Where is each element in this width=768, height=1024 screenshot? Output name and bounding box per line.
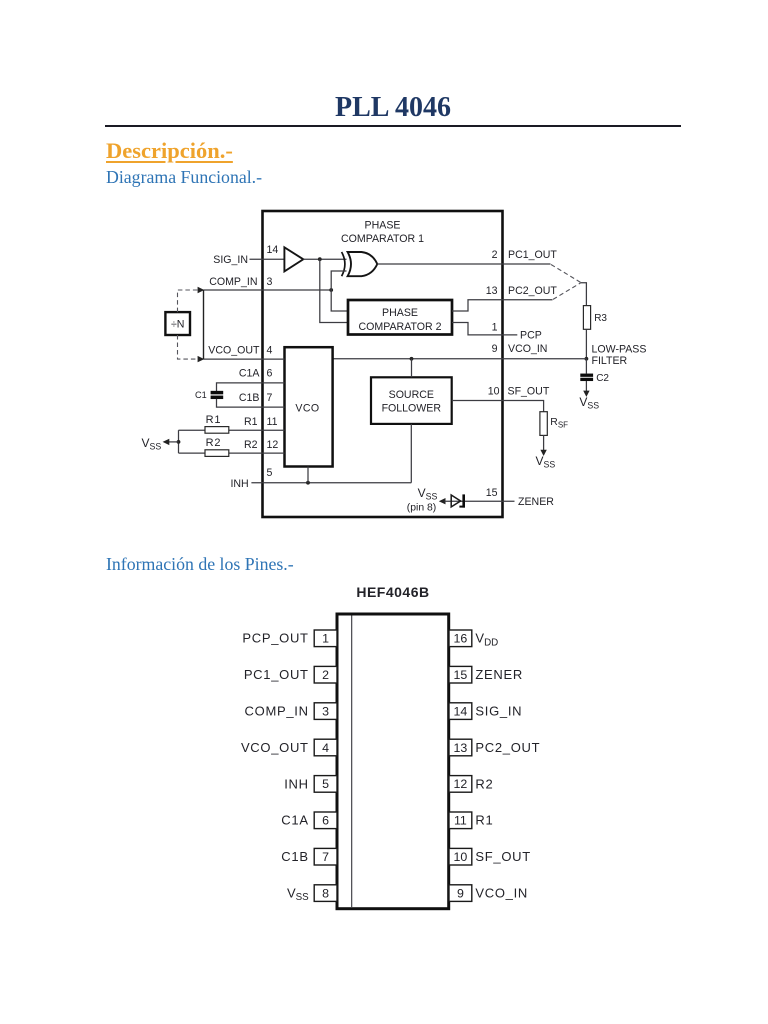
pin 15 box	[449, 666, 472, 683]
wire SIG_IN	[250, 258, 285, 260]
svg-text:VSS: VSS	[142, 436, 162, 452]
resistor R3	[583, 306, 590, 330]
svg-text:2: 2	[492, 249, 498, 261]
svg-text:1: 1	[322, 632, 329, 646]
svg-text:VCO_OUT: VCO_OUT	[241, 740, 309, 755]
svg-text:11: 11	[454, 814, 467, 828]
svg-text:SF_OUT: SF_OUT	[475, 849, 530, 864]
svg-text:14: 14	[267, 244, 279, 256]
svg-text:R2: R2	[244, 439, 258, 451]
wire buffer to XOR	[303, 257, 346, 261]
svg-text:C1A: C1A	[281, 813, 308, 828]
svg-text:HEF4046B: HEF4046B	[356, 584, 429, 600]
wire VCO_OUT	[204, 358, 285, 360]
pin 6 box	[314, 812, 337, 829]
horizontal rule	[105, 125, 681, 127]
svg-text:COMPARATOR 2: COMPARATOR 2	[359, 321, 442, 333]
wire filter node to R3	[581, 283, 587, 306]
svg-text:VCO_IN: VCO_IN	[475, 886, 528, 901]
svg-text:3: 3	[322, 704, 329, 718]
svg-text:SIG_IN: SIG_IN	[475, 704, 522, 719]
wire COMP_IN to PC2 upper input	[331, 290, 348, 311]
wire INH to VCO	[307, 467, 309, 483]
svg-text:(pin 8): (pin 8)	[407, 503, 436, 514]
zener diode arrow	[439, 498, 515, 504]
pin 2 box	[314, 666, 337, 683]
VCO box	[285, 347, 333, 466]
svg-text:VSS: VSS	[287, 886, 309, 904]
wire C1A	[217, 383, 285, 391]
pin diagram body	[337, 614, 449, 909]
svg-text:PC2_OUT: PC2_OUT	[508, 285, 557, 297]
capacitor C1	[211, 393, 224, 398]
svg-text:1: 1	[492, 321, 498, 333]
heading Descripcion	[106, 138, 233, 164]
wire PC2 to pin 13	[452, 300, 553, 311]
pin 4 box	[314, 739, 337, 756]
label PHASE COMPARATOR 1	[341, 220, 424, 246]
svg-text:ZENER: ZENER	[518, 496, 554, 508]
wire junction to C2	[585, 359, 587, 374]
svg-text:PCP: PCP	[520, 330, 542, 342]
svg-text:VCO: VCO	[295, 402, 319, 414]
svg-text:PHASE: PHASE	[365, 220, 401, 232]
svg-text:13: 13	[486, 285, 498, 297]
svg-text:7: 7	[267, 392, 273, 404]
svg-text:10: 10	[454, 850, 468, 864]
title PLL 4046	[18, 92, 768, 124]
pin 16 box	[449, 630, 472, 647]
svg-text:PCP_OUT: PCP_OUT	[242, 631, 308, 646]
divider N box	[165, 312, 190, 335]
buffer amplifier	[284, 247, 303, 271]
svg-text:16: 16	[454, 632, 468, 646]
svg-text:R3: R3	[594, 313, 607, 324]
svg-text:C2: C2	[596, 373, 609, 384]
wire VCO_IN	[333, 357, 587, 361]
pin 11 box	[449, 812, 472, 829]
wire PC2 to pin 1 PCP	[452, 323, 517, 335]
dashed path divider bottom	[178, 335, 199, 359]
label SOURCE FOLLOWER	[382, 389, 442, 414]
svg-text:PC1_OUT: PC1_OUT	[244, 667, 309, 682]
subheading Informacion de los Pines	[106, 554, 294, 575]
pin 1 box	[314, 630, 337, 647]
pin 10 box	[449, 848, 472, 865]
svg-text:FILTER: FILTER	[592, 355, 628, 367]
wire RSF to VSS arrow	[540, 435, 546, 456]
svg-text:6: 6	[322, 814, 329, 828]
subheading Diagrama Funcional	[106, 167, 262, 188]
svg-text:C1B: C1B	[281, 849, 308, 864]
svg-text:FOLLOWER: FOLLOWER	[382, 403, 442, 415]
capacitor C2	[580, 375, 593, 379]
wire COMP_IN	[204, 288, 334, 292]
XOR gate U1	[342, 252, 378, 276]
svg-text:SIG_IN: SIG_IN	[213, 254, 248, 266]
source follower box	[371, 377, 452, 424]
svg-text:9: 9	[492, 343, 498, 355]
pin 14 box	[449, 703, 472, 720]
wire VCO_IN junction to source follower	[411, 359, 413, 378]
wire INH to source follower	[410, 424, 412, 483]
svg-text:VDD: VDD	[475, 631, 498, 649]
IC outer box	[263, 211, 503, 517]
svg-text:VSS: VSS	[579, 395, 599, 411]
svg-text:PC1_OUT: PC1_OUT	[508, 249, 557, 261]
dashed line PC1_OUT to filter	[551, 265, 581, 283]
svg-text:LOW-PASS: LOW-PASS	[592, 344, 647, 356]
wire R1 R2 to VSS	[163, 430, 181, 453]
wire COMP_IN to XOR lower input	[331, 271, 346, 290]
wire C2 to VSS arrow	[583, 381, 589, 397]
pin 12 box	[449, 776, 472, 793]
resistor RSF	[540, 412, 547, 436]
label VSS pin8	[407, 486, 438, 514]
svg-text:12: 12	[454, 777, 468, 791]
svg-text:R2: R2	[206, 437, 222, 449]
svg-text:11: 11	[267, 416, 278, 428]
svg-text:10: 10	[488, 385, 500, 397]
zener diode D1	[451, 494, 465, 507]
svg-text:9: 9	[457, 886, 464, 900]
svg-text:12: 12	[267, 439, 279, 451]
svg-text:VSS: VSS	[536, 454, 556, 470]
pin 5 box	[314, 776, 337, 793]
svg-text:C1B: C1B	[239, 392, 260, 404]
svg-text:SF_OUT: SF_OUT	[508, 385, 550, 397]
svg-text:PHASE: PHASE	[382, 307, 418, 319]
svg-text:ZENER: ZENER	[475, 667, 523, 682]
pin 13 box	[449, 739, 472, 756]
wire R3 to VCO_IN line	[585, 329, 589, 360]
svg-text:COMP_IN: COMP_IN	[209, 276, 257, 288]
svg-text:2: 2	[322, 668, 329, 682]
svg-text:VCO_OUT: VCO_OUT	[208, 345, 260, 357]
svg-text:÷N: ÷N	[171, 319, 184, 331]
svg-text:5: 5	[322, 777, 329, 791]
wire XOR output to pin 2	[377, 263, 550, 265]
svg-text:14: 14	[454, 704, 468, 718]
svg-text:C1: C1	[195, 390, 207, 400]
wire C1B	[217, 399, 285, 407]
svg-text:15: 15	[486, 487, 498, 499]
svg-text:PC2_OUT: PC2_OUT	[475, 740, 540, 755]
inner line	[351, 616, 353, 908]
svg-text:5: 5	[267, 467, 273, 479]
pin 3 box	[314, 703, 337, 720]
svg-text:INH: INH	[230, 478, 248, 490]
dashed line PC2_OUT to filter	[553, 283, 581, 300]
svg-text:8: 8	[322, 886, 329, 900]
svg-text:13: 13	[454, 741, 468, 755]
wire INH	[251, 481, 411, 485]
svg-text:R1: R1	[475, 813, 493, 828]
pin 9 box	[449, 885, 472, 902]
wire SF_OUT	[452, 401, 544, 412]
pin 7 box	[314, 848, 337, 865]
svg-text:COMP_IN: COMP_IN	[245, 704, 309, 719]
svg-text:COMPARATOR 1: COMPARATOR 1	[341, 233, 424, 245]
svg-text:INH: INH	[284, 776, 309, 791]
svg-text:15: 15	[454, 668, 468, 682]
svg-text:VCO_IN: VCO_IN	[508, 343, 547, 355]
dashed path divider top	[178, 290, 199, 312]
svg-text:3: 3	[267, 276, 273, 288]
svg-text:R1: R1	[244, 416, 258, 428]
wire SIG path to PC2 lower input	[320, 259, 348, 322]
pin 8 box	[314, 885, 337, 902]
feedback line with arrows	[198, 287, 205, 363]
svg-text:6: 6	[267, 367, 273, 379]
wire R2	[179, 452, 285, 454]
svg-text:RSF: RSF	[550, 417, 568, 429]
svg-text:SOURCE: SOURCE	[389, 389, 434, 401]
svg-text:4: 4	[267, 345, 273, 357]
wire R1	[179, 429, 285, 431]
phase comparator 2 box	[348, 300, 452, 335]
svg-text:7: 7	[322, 850, 329, 864]
label LOW-PASS FILTER	[592, 344, 647, 368]
svg-text:VSS: VSS	[418, 486, 438, 502]
resistor R1	[205, 427, 229, 434]
label PHASE COMPARATOR 2	[359, 307, 442, 333]
svg-text:4: 4	[322, 741, 329, 755]
svg-text:R1: R1	[206, 414, 222, 426]
svg-text:C1A: C1A	[239, 367, 261, 379]
resistor R2	[205, 450, 229, 457]
svg-text:R2: R2	[475, 776, 493, 791]
